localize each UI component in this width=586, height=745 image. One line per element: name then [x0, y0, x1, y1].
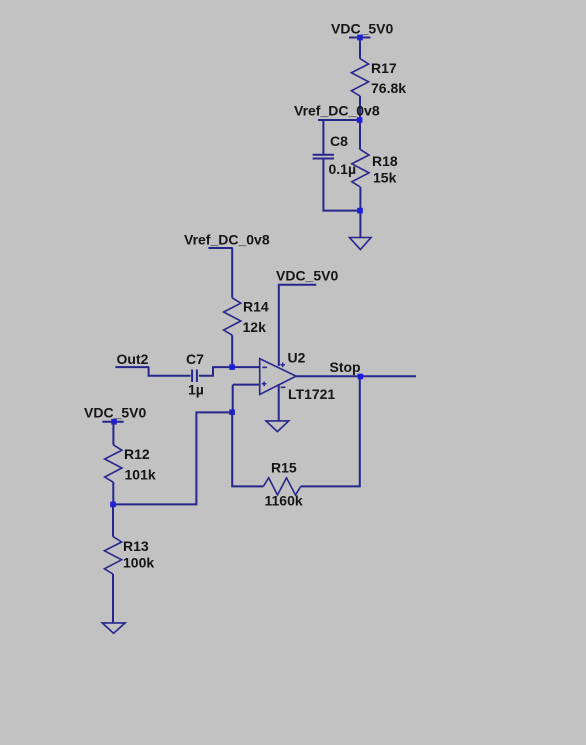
wire [359, 122, 361, 150]
wire [322, 120, 324, 154]
capacitor C7 [186, 351, 204, 398]
resistor R15 [263, 460, 303, 509]
svg-text:12k: 12k [243, 319, 267, 335]
svg-text:1160k: 1160k [265, 493, 303, 509]
node junction [357, 208, 363, 214]
ground [350, 238, 372, 250]
wire [359, 187, 361, 237]
wire [113, 412, 232, 504]
resistor R18 [352, 150, 398, 187]
wire [359, 38, 361, 59]
svg-text:C8: C8 [330, 133, 348, 149]
svg-text:R17: R17 [371, 60, 397, 76]
svg-text:R14: R14 [243, 299, 269, 315]
svg-text:VDC_5V0: VDC_5V0 [276, 268, 338, 284]
wire [112, 507, 114, 537]
wire [231, 248, 233, 298]
node Vref_DC_0v8 flag [294, 103, 380, 123]
wire [149, 367, 191, 376]
svg-text:76.8k: 76.8k [371, 80, 406, 96]
wire [199, 367, 260, 376]
svg-text:VDC_5V0: VDC_5V0 [331, 21, 393, 37]
node Stop [330, 359, 364, 379]
wire [323, 159, 360, 211]
node Out2 flag [115, 351, 149, 367]
svg-text:1µ: 1µ [188, 382, 204, 398]
svg-text:15k: 15k [373, 170, 397, 186]
svg-text:VDC_5V0: VDC_5V0 [84, 405, 146, 421]
ground [102, 623, 125, 633]
svg-text:R13: R13 [123, 538, 149, 554]
wire V- pin [278, 384, 280, 421]
node junction [110, 502, 116, 508]
svg-text:C7: C7 [186, 351, 204, 367]
ground [266, 421, 289, 432]
svg-text:R15: R15 [271, 460, 297, 476]
svg-text:101k: 101k [125, 467, 156, 483]
svg-text:R12: R12 [124, 446, 150, 462]
wire [359, 96, 361, 120]
svg-text:Vref_DC_0v8: Vref_DC_0v8 [184, 232, 270, 248]
wire output [296, 375, 416, 377]
node VDC_5V0 mid flag [276, 268, 338, 285]
svg-text:100k: 100k [123, 555, 154, 571]
op-amp U2 [260, 350, 336, 403]
resistor R12 [105, 445, 156, 483]
wire [233, 384, 260, 386]
resistor R13 [104, 537, 154, 574]
node junction [229, 364, 235, 370]
resistor R17 [351, 59, 406, 96]
svg-text:R18: R18 [372, 153, 398, 169]
wire [232, 412, 263, 486]
node VDC_5V0 lower-left flag [84, 405, 146, 425]
svg-text:Out2: Out2 [117, 351, 149, 367]
node VDC_5V0 top flag [331, 21, 393, 41]
wire [232, 385, 234, 413]
node junction [229, 409, 235, 415]
svg-text:LT1721: LT1721 [288, 386, 335, 402]
svg-text:Vref_DC_0v8: Vref_DC_0v8 [294, 103, 380, 119]
svg-text:U2: U2 [288, 350, 306, 366]
wire [301, 377, 360, 487]
capacitor C8 [313, 133, 356, 177]
wire [278, 285, 280, 366]
wire [112, 482, 114, 504]
resistor R14 [224, 298, 269, 335]
wire [231, 335, 233, 367]
wire [112, 574, 114, 623]
svg-text:Stop: Stop [330, 359, 361, 375]
wire [112, 422, 114, 445]
node Vref_DC_0v8 mid flag [184, 232, 270, 249]
